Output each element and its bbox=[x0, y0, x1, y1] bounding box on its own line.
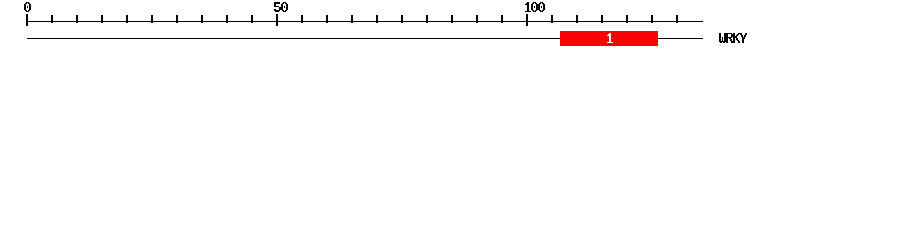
ruler baseline bbox=[27, 21, 703, 22]
ruler label 50 bbox=[274, 2, 288, 12]
ruler minor ticks (every 5 aa) bbox=[51, 15, 678, 23]
domain name label WRKY bbox=[719, 33, 747, 43]
protein domain diagram bbox=[0, 0, 900, 58]
domain number 1 (white) bbox=[607, 33, 613, 43]
ruler major ticks (0, 50, 100) bbox=[26, 14, 528, 26]
ruler label 100 bbox=[525, 2, 545, 12]
sequence line (protein backbone, 1-135 aa) bbox=[27, 38, 703, 39]
ruler label 0 bbox=[24, 2, 31, 12]
WRKY domain box 1 bbox=[560, 31, 658, 46]
background bbox=[0, 0, 900, 58]
